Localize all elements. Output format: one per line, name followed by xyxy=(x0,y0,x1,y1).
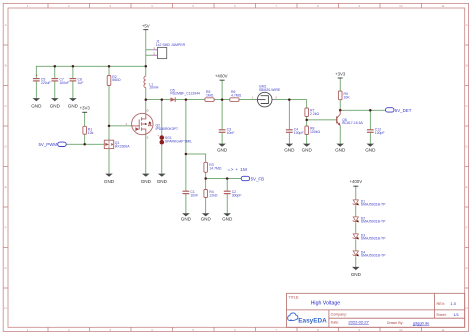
transistor Q5 xyxy=(337,110,364,126)
port 5V_DET xyxy=(386,108,412,113)
resistor R1 xyxy=(83,126,94,135)
zener diode D3 xyxy=(353,233,387,240)
wire FB row xyxy=(206,178,242,180)
svg-text:5V_DET: 5V_DET xyxy=(395,108,412,113)
svg-text:BC817-16 6A: BC817-16 6A xyxy=(342,121,363,125)
wire C1 bottom xyxy=(185,194,187,214)
svg-text:EasyEDA: EasyEDA xyxy=(298,317,327,324)
svg-text:10nF: 10nF xyxy=(227,131,235,135)
svg-text:1x2 SMD JUMPER: 1x2 SMD JUMPER xyxy=(156,43,186,47)
resistor R6 xyxy=(230,90,242,102)
mosfet Q2 xyxy=(126,109,178,140)
zener diode D2 xyxy=(353,216,387,223)
svg-text:D: D xyxy=(147,109,149,113)
capacitor C4 xyxy=(286,128,304,135)
capacitor C3 xyxy=(219,128,235,135)
diode D5 xyxy=(170,88,200,102)
svg-text:SPARKGAP 5MIL: SPARKGAP 5MIL xyxy=(165,139,192,143)
svg-text:+3V3: +3V3 xyxy=(335,72,346,77)
junction dots xyxy=(54,65,372,180)
wire C7 leads xyxy=(54,66,56,78)
ground under C2 xyxy=(222,213,233,221)
resistor R8 xyxy=(305,126,321,135)
wire C2 leads xyxy=(226,179,228,192)
svg-text:10k: 10k xyxy=(88,131,94,135)
svg-text:+: + xyxy=(36,74,38,78)
wire R9 top xyxy=(339,78,341,91)
svg-text:RS2MBF_C113944: RS2MBF_C113944 xyxy=(170,92,200,96)
svg-text:GND: GND xyxy=(222,217,233,222)
svg-text:11: 11 xyxy=(441,328,444,332)
svg-text:SMAJ5931B-TP: SMAJ5931B-TP xyxy=(361,203,386,207)
wire +5V rail top xyxy=(36,66,146,78)
wire SG1 top xyxy=(161,100,163,135)
svg-text:GND: GND xyxy=(284,147,295,152)
svg-text:GND: GND xyxy=(302,147,313,152)
svg-text:5V_PWM: 5V_PWM xyxy=(38,142,57,147)
wire +5V vertical xyxy=(145,30,147,67)
svg-text:100nF: 100nF xyxy=(59,81,69,85)
EasyEDA logo xyxy=(288,313,327,324)
svg-text:GND: GND xyxy=(351,272,362,277)
ground under R8 xyxy=(302,144,313,153)
ground under C6 xyxy=(68,98,79,108)
wire DET row xyxy=(340,109,385,111)
svg-text:5V_FB: 5V_FB xyxy=(251,176,264,181)
svg-text:4.7MΩ: 4.7MΩ xyxy=(231,93,242,97)
svg-text:E: E xyxy=(5,185,7,189)
svg-text:GND: GND xyxy=(141,179,152,184)
wire J1 stubs xyxy=(146,49,153,51)
svg-text:B: B xyxy=(5,64,7,68)
capacitor C1 xyxy=(183,190,199,197)
svg-text:Sheet:: Sheet: xyxy=(436,313,446,317)
capacitor C6 xyxy=(70,77,84,84)
svg-text:REV:: REV: xyxy=(437,302,446,306)
svg-text:12kΩ: 12kΩ xyxy=(209,194,218,198)
power flag +400V xyxy=(215,74,228,81)
capacitor C7 xyxy=(51,77,69,84)
geiger tube GM1 xyxy=(252,85,281,107)
port 5V_PWM xyxy=(38,142,66,147)
svg-text:1/1: 1/1 xyxy=(453,312,459,317)
connector J1 xyxy=(152,39,185,58)
power flag +400V diode string xyxy=(350,179,363,186)
wire Q1 source to gnd xyxy=(108,149,110,174)
svg-text:Date:: Date: xyxy=(331,320,340,324)
svg-text:-: - xyxy=(158,145,159,148)
resistor R2 xyxy=(107,75,121,86)
svg-text:GND: GND xyxy=(68,103,79,108)
ground under C5 xyxy=(31,98,42,108)
svg-text:10: 10 xyxy=(399,4,403,8)
svg-text:GND: GND xyxy=(31,103,42,108)
capacitor C2 xyxy=(224,190,242,197)
wire C6 leads xyxy=(72,66,74,78)
svg-text:10: 10 xyxy=(399,328,403,332)
svg-text:10K: 10K xyxy=(344,95,351,99)
wire Q2 gate xyxy=(109,125,132,127)
power flag +3V3 right xyxy=(335,72,346,78)
port 5V_FB xyxy=(241,176,264,181)
svg-text:A: A xyxy=(5,23,7,27)
svg-text:GND: GND xyxy=(201,217,212,222)
svg-text:1uF: 1uF xyxy=(78,81,84,85)
ground under C12 xyxy=(365,144,376,153)
ground under Q2 xyxy=(141,174,152,185)
title text xyxy=(289,296,460,326)
svg-text:GND: GND xyxy=(335,147,346,152)
resistor R3 xyxy=(204,162,222,172)
svg-text:+400V: +400V xyxy=(350,179,363,184)
wire C4 leads xyxy=(288,100,290,130)
ground under C3 xyxy=(217,144,228,153)
svg-text:14.7MΩ: 14.7MΩ xyxy=(209,166,222,170)
spark gap SG1 xyxy=(158,134,193,147)
title block xyxy=(287,293,465,327)
ground under Q5 xyxy=(335,144,346,153)
wire +400V flag column xyxy=(221,80,223,99)
wire HV node down xyxy=(185,100,187,191)
svg-text:10nF: 10nF xyxy=(190,194,198,198)
svg-text:F: F xyxy=(466,226,468,230)
svg-text:+400V: +400V xyxy=(215,74,228,79)
zener diode D4 xyxy=(353,250,387,257)
svg-text:A: A xyxy=(466,23,468,27)
svg-text:+5V: +5V xyxy=(142,24,150,29)
svg-text:=> + 1M: => + 1M xyxy=(228,167,248,172)
wire R1 column xyxy=(84,112,86,126)
svg-text:SMAJ5931B-TP: SMAJ5931B-TP xyxy=(361,237,386,241)
wire C5 bottom lead xyxy=(35,82,37,99)
power flag +3V3 left xyxy=(80,106,91,113)
zener diode D1 xyxy=(353,199,387,206)
capacitor C5 xyxy=(33,74,51,85)
svg-text:H: H xyxy=(466,306,468,310)
wire node to R3 xyxy=(186,154,206,162)
svg-text:GND: GND xyxy=(157,179,168,184)
ground under C7 xyxy=(50,98,61,108)
svg-text:100pF: 100pF xyxy=(294,131,304,135)
svg-text:300pF: 300pF xyxy=(232,194,242,198)
svg-text:SMAJ5931B-TP: SMAJ5931B-TP xyxy=(361,220,386,224)
svg-text:+3V3: +3V3 xyxy=(80,106,91,111)
svg-text:IPD80R0K3P7: IPD80R0K3P7 xyxy=(156,127,178,131)
svg-text:High Voltage: High Voltage xyxy=(311,301,341,307)
wire R9 bottom / collector xyxy=(339,100,341,111)
ground under C1 xyxy=(181,213,192,221)
wire C3 leads xyxy=(221,100,223,130)
wire R7-R8 junction xyxy=(306,117,308,127)
svg-text:GND: GND xyxy=(365,147,376,152)
resistor R5 xyxy=(205,90,214,102)
svg-text:Drawn By:: Drawn By: xyxy=(387,321,404,325)
resistor R7 xyxy=(305,108,320,117)
svg-text:1.0: 1.0 xyxy=(450,301,456,306)
svg-text:B: B xyxy=(466,64,468,68)
svg-text:SMAJ5931B-TP: SMAJ5931B-TP xyxy=(361,254,386,258)
svg-text:H: H xyxy=(5,306,7,310)
wire R3 bottom xyxy=(205,172,207,178)
svg-text:10mH: 10mH xyxy=(149,86,159,90)
svg-text:F: F xyxy=(5,226,7,230)
svg-text:11: 11 xyxy=(441,4,444,8)
wire Q5 emitter xyxy=(339,126,341,144)
svg-text:S: S xyxy=(147,136,149,140)
wire L1 leads xyxy=(145,66,147,76)
svg-text:SBM20-WIRE: SBM20-WIRE xyxy=(259,88,281,92)
svg-text:220uF: 220uF xyxy=(41,81,51,85)
capacitor C12 xyxy=(367,128,385,135)
svg-text:g3gg0.de: g3gg0.de xyxy=(413,321,430,326)
svg-text:2022-02-27: 2022-02-27 xyxy=(348,320,369,325)
ground under Q1 xyxy=(104,174,115,185)
transistor Q1 xyxy=(104,140,130,148)
svg-text:TITLE:: TITLE: xyxy=(289,296,300,300)
wire Q2 source xyxy=(145,134,147,174)
resistor R4 xyxy=(204,190,218,198)
wire R7 top xyxy=(306,100,308,108)
power flag +5V xyxy=(142,24,150,30)
svg-text:GND: GND xyxy=(181,217,192,222)
ground under diode string xyxy=(351,267,362,277)
ground under R4 xyxy=(201,213,212,221)
svg-text:Company:: Company: xyxy=(331,312,347,316)
wire R4 leads xyxy=(205,179,207,190)
svg-text:2.2kΩ: 2.2kΩ xyxy=(310,112,319,116)
wire R2 leads xyxy=(108,66,110,75)
wire Q5 base row xyxy=(307,119,337,121)
wire PWM row xyxy=(66,143,104,145)
wire R8 bottom xyxy=(306,135,308,144)
svg-text:100pF: 100pF xyxy=(375,131,385,135)
svg-text:E: E xyxy=(466,185,468,189)
svg-text:HX2300A: HX2300A xyxy=(115,145,130,149)
wire C12 leads xyxy=(369,110,371,129)
inductor L1 xyxy=(144,76,159,90)
wire SG1 bottom to gnd xyxy=(161,145,163,174)
svg-text:100kΩ: 100kΩ xyxy=(310,130,320,134)
svg-text:560Ω: 560Ω xyxy=(112,78,121,82)
svg-text:GND: GND xyxy=(217,147,228,152)
svg-text:GND: GND xyxy=(104,179,115,184)
svg-text:GND: GND xyxy=(50,103,61,108)
wire HV rail xyxy=(146,99,171,101)
wire diode string xyxy=(355,186,357,200)
ground under SG1 xyxy=(157,174,168,185)
ground under C4 xyxy=(284,144,295,153)
wire Q2 drain xyxy=(145,100,147,115)
resistor R9 xyxy=(338,91,350,100)
svg-text:1MΩ: 1MΩ xyxy=(206,93,214,97)
